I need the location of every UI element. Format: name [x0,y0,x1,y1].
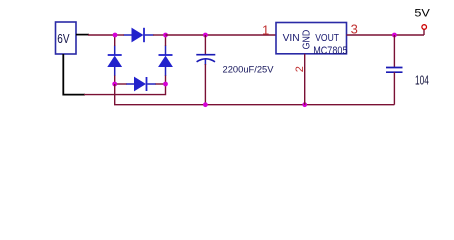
capacitor C1 2200uF/25V (polarized) [196,35,215,105]
wire D3 anode to BR [165,76,167,85]
label 5V [414,7,430,19]
wire TR to D3 cathode [165,35,167,46]
node TL junction dot [113,33,118,38]
pin number 1 [262,22,269,37]
diode D3 (right, points up) [159,46,173,77]
AC source V1 box [56,22,77,54]
wire D4 cathode to BR [156,83,166,85]
svg-text:104: 104 [415,73,429,87]
wire regulator GND pin to rail [304,54,306,105]
wire TR to regulator VIN [166,34,277,36]
source bottom pin (black wire) [63,54,85,95]
wire TL to D1 anode [115,34,124,36]
svg-text:1: 1 [262,22,269,37]
pin number 2 (rotated) [294,66,306,72]
wire source to node TL [88,34,115,36]
node C1 bottom junction dot [203,102,208,107]
svg-text:GND: GND [302,30,313,50]
wire D1 cathode to TR [153,34,166,36]
wire D2 anode to BL [114,76,116,85]
svg-text:VIN: VIN [283,33,300,44]
pin name VIN [283,33,300,44]
wire TL to D2 cathode [114,35,116,46]
node GND rail junction dot [302,102,307,107]
node TR junction dot [163,33,168,38]
svg-text:3: 3 [351,21,358,36]
node BR junction dot [163,82,168,87]
pin number 3 [351,21,358,36]
regulator U1 MC7805 box [276,23,347,54]
ground rail wire [115,84,395,105]
svg-text:2200uF/25V: 2200uF/25V [223,64,275,75]
value label 2200uF/25V [223,64,275,75]
pin name VOUT [315,33,339,44]
svg-text:VOUT: VOUT [315,33,339,44]
node C2 top junction dot [392,33,397,38]
value label 104 [415,73,429,87]
capacitor C2 104 [386,35,403,105]
diode D4 (bottom, points right) [126,77,156,91]
output terminal 5V [422,25,427,35]
svg-text:6V: 6V [57,31,69,46]
wire VOUT to output [347,34,425,36]
source top pin (black) [76,34,89,36]
wire AC2 to node BR [84,84,166,95]
node BL junction dot [112,82,117,87]
pin name GND (rotated) [302,30,313,50]
part name MC7805 [313,45,347,57]
svg-text:5V: 5V [414,7,430,19]
wire BL to D4 anode [115,83,127,85]
svg-text:MC7805: MC7805 [313,45,347,57]
node C1 top junction dot [203,33,208,38]
diode D2 (left, points up) [108,46,122,77]
diode D1 (top, points right) [124,28,154,42]
